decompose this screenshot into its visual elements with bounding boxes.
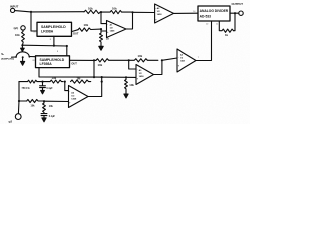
svg-text:ANALOG DIVIDER: ANALOG DIVIDER [200,9,229,13]
op-amp A3 input polarity marks [137,69,139,81]
resistor R13 1M (row1) [71,80,91,83]
wire top row input to node A [15,11,84,12]
node W junction (RC tee) [43,100,45,102]
wire S/H1 out [72,30,79,32]
switch S1 left contact [15,56,17,58]
op-amp A3 (1/2 1458) [136,65,154,85]
wire A3 out riser to N3 [154,60,162,74]
svg-text:IN: IN [33,31,36,33]
node N3 junction [161,59,163,61]
wire S1 to S/H2 input [29,56,35,58]
wire node S down to A5 minus [65,82,69,91]
wire phi1 row [22,44,66,47]
node N2 junction [128,59,130,61]
resistor R5 1k (divider feedback) [220,29,233,32]
svg-text:8: 8 [57,51,59,53]
ground arrow (C2) [42,118,46,122]
wire S/H2 ground pin down [39,68,93,78]
ground arrow (R10) [124,91,128,98]
resistor R2 10k (feedback A1) [100,11,131,14]
wire node E down to R5 [234,13,236,31]
resistor R7 10k (row A) [96,59,129,62]
wire phi2 riser [17,101,20,114]
resistor R15 10k to ground [43,101,46,113]
wire row1 segment [43,81,51,83]
node A junction (input tee) [30,11,32,13]
wire S1 left stub [12,56,17,58]
svg-text:10k: 10k [88,6,93,10]
resistor R12 (row1) [50,80,63,83]
wire node U to R14 [19,100,27,102]
svg-text:OUT: OUT [71,62,77,66]
svg-text:OUTPUT: OUTPUT [232,2,244,6]
switch S1 wiper arrow [21,45,25,51]
U3 label [200,9,229,19]
svg-text:10k: 10k [84,23,89,27]
capacitor C2 0.1uF [41,114,47,118]
node G junction (S/H1 logic tee) [53,45,55,47]
svg-text:1458: 1458 [71,98,77,101]
wire A2 out to divider [174,12,199,14]
analog divider U3 box [198,6,230,21]
resistor R4 1k to ground [100,31,103,44]
svg-text:SAMPLE/HOLD: SAMPLE/HOLD [40,58,65,62]
switch S1 right contact [29,56,31,58]
resistor R11 750 1% [19,80,43,83]
svg-text:0.1µF: 0.1µF [49,115,56,118]
wire A5 out riser [88,77,102,96]
svg-text:1k: 1k [225,33,229,37]
svg-text:14: 14 [193,11,196,13]
node P junction (A5 riser top) [101,76,103,78]
wire plus row to A3 plus [94,76,136,78]
ground arrow (C1) [41,90,45,93]
svg-text:10k: 10k [138,54,143,58]
svg-text:OUT: OUT [73,32,79,36]
wire node B down to A1 minus [101,12,107,24]
svg-text:SAMPLE/HOLD: SAMPLE/HOLD [41,25,66,29]
svg-text:1458: 1458 [110,30,116,33]
svg-text:10k: 10k [31,105,36,108]
node R junction (cap tee) [41,81,43,83]
wire node G up to S/H1 logic pin [53,36,55,45]
wire node H down to S/H2 logic pin [66,46,68,56]
svg-text:0.1µF: 0.1µF [46,87,53,90]
ground arrow under S1 [21,58,25,65]
op-amp A2 (1/2 1458) [155,4,174,23]
wire N2 down to A3 minus [129,60,136,69]
wire node D to A1 plus [101,29,107,31]
phi1 connector J3 [21,26,25,30]
svg-text:11: 11 [216,23,219,25]
resistor R10 10k to -V [125,77,128,91]
switch S1 center contact [22,56,24,58]
node C junction [131,11,133,13]
svg-text:(SAMPLING): (SAMPLING) [1,58,14,61]
node V1b junction [93,76,95,78]
node H junction [66,45,68,47]
op-amp A5 input polarity marks [69,90,71,104]
resistor R3 10k (S/H1 out) [78,28,101,31]
U1 label [33,25,78,35]
OUTPUT connector J2 [239,11,243,15]
wire row1 riser [18,82,20,101]
resistor R14 10k (row2) [27,100,44,103]
wire N3 to A4 minus [162,58,177,60]
svg-text:8: 8 [50,39,52,41]
op-amp A5 (1/2 1458) [69,86,89,108]
node E junction (output) [234,12,236,14]
svg-text:10k: 10k [52,76,57,80]
wire node A down to S/H1 input [31,12,37,31]
wire row2 to A5 plus [44,100,69,102]
svg-text:AD-533: AD-533 [200,15,212,19]
switch S1 arc [16,52,29,57]
svg-text:1458: 1458 [139,75,145,78]
wire V1 down to plus row [93,60,95,77]
op-amp A1 input polarity marks [107,23,109,34]
svg-text:S₁: S₁ [1,52,5,56]
paper noise [0,0,250,124]
node T junction (row1 right end) [101,81,103,83]
phi2 connector J4 [15,114,21,120]
node F junction (phi1 row) [21,44,23,46]
svg-text:INPUT: INPUT [10,4,19,8]
wire node C to A2 input [133,11,155,13]
resistor R6 10k (phi1) [22,30,25,45]
wire divider pin to R5 [218,21,220,31]
sample/hold U1 box [37,22,72,36]
svg-text:10k: 10k [49,105,54,108]
node U junction (row2 left) [18,100,20,102]
op-amp A4 (1/2 1458) [177,49,196,72]
ground arrow (A1 plus) [99,44,103,50]
svg-text:1458: 1458 [157,13,163,16]
svg-text:7: 7 [198,57,200,59]
sample/hold U2 box [36,56,70,68]
resistor R8 10k (A3 feedback) [129,59,158,62]
svg-text:IN: IN [32,60,35,62]
resistor R1 10k (top row) [84,10,100,13]
svg-text:10: 10 [206,23,209,25]
svg-text:10k: 10k [15,33,20,37]
node S junction (A5 minus tee) [64,81,66,83]
op-amp A2 input polarity marks [155,7,157,21]
svg-text:(φ1): (φ1) [14,27,19,30]
node Q junction (R10 top) [125,76,127,78]
svg-text:10k: 10k [129,83,134,87]
wire A1 output riser to node C [126,12,133,29]
svg-text:1M: 1M [77,76,82,80]
node D junction (A1 plus node) [100,28,102,30]
op-amp A4 input polarity marks [178,56,180,67]
svg-text:1458: 1458 [180,60,186,63]
op-amp A1 (1/2 1458) [107,21,127,38]
wire divider Z pin down to A4 out [196,21,212,61]
wire S/H2 out (row A) [70,59,97,61]
svg-text:φ2: φ2 [9,120,13,124]
capacitor C1 0.1uF [40,82,46,91]
U2 label [32,58,77,66]
node B junction [100,11,102,13]
svg-text:LF398A: LF398A [40,62,53,66]
svg-text:10k: 10k [112,7,117,11]
svg-text:10k: 10k [98,63,103,67]
input connector J1 [11,8,15,12]
node V1 junction (row A) [93,59,95,61]
wire divider out [230,12,239,14]
svg-text:LF398A: LF398A [41,30,54,34]
svg-text:1k: 1k [106,37,110,41]
svg-text:750 1%: 750 1% [22,87,31,90]
